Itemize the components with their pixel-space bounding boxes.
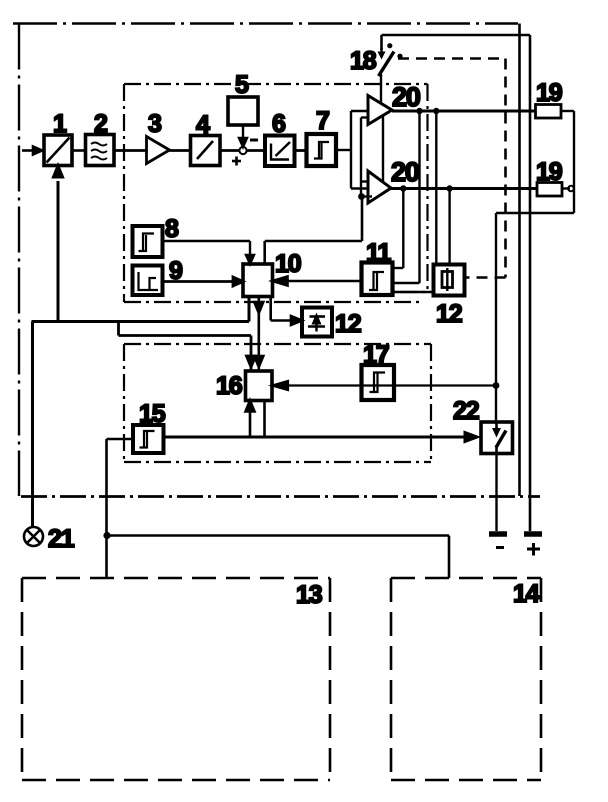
wire block 22 to minus terminal [495, 453, 497, 532]
resistor 19 lower [537, 183, 562, 197]
outer machine boundary frame (dash-dot) [13, 24, 540, 497]
wire 7 to amplifier input line [336, 149, 351, 151]
block 1 (resolver, square with diagonal) [44, 135, 72, 166]
svg-text:21: 21 [48, 525, 75, 553]
svg-text:12: 12 [436, 300, 462, 328]
junction node [433, 108, 439, 114]
pulse block 12 [302, 308, 332, 337]
input arrow into block 1 [22, 147, 42, 155]
feedback wire block 10 bottom-left, long line to lamp and block 1 [32, 166, 250, 526]
amplifier input bus line L1 [351, 111, 368, 189]
svg-text:5: 5 [235, 71, 249, 99]
resistor 19 upper [536, 105, 562, 119]
junction node [103, 532, 110, 539]
wire block 16 bottom-right to thick line [263, 401, 266, 438]
svg-text:6: 6 [272, 110, 285, 138]
block 8 (relay characteristic) [133, 226, 163, 257]
inner subsystem frame 3 (dash-dot) [124, 344, 431, 462]
block 22 (switch) [481, 422, 513, 454]
wire resistor19 lower to common node [562, 187, 570, 189]
branch wire to block 16 top-left input [119, 322, 256, 372]
block 6 (limiter characteristic) [265, 136, 295, 167]
block 4 (ramp limiter) [191, 136, 221, 166]
block 15 (relay characteristic) [133, 425, 164, 453]
svg-text:1: 1 [53, 110, 67, 138]
power link between amplifiers [382, 116, 384, 183]
wire junction to box 14 [107, 536, 449, 579]
wire block 16 bottom-left to thick line (up arrow) [246, 401, 255, 438]
wire 11 to 10 with left arrow [273, 277, 362, 286]
wire 3 to 4 [170, 149, 191, 152]
box 13 (dashed) [22, 578, 330, 780]
summing junction node [239, 147, 246, 154]
svg-text:11: 11 [366, 239, 391, 267]
wire 9 to 10 with arrow [162, 277, 243, 286]
wire 6 to 7 [295, 149, 307, 152]
svg-text:7: 7 [316, 107, 329, 135]
wire 8 to 10 with down arrow [162, 241, 254, 264]
amplifier 3 (triangle) [147, 137, 170, 164]
wire block 10 up and right to lower amplifier input [265, 197, 362, 265]
block 5 [228, 97, 258, 125]
box 14 (dashed) [391, 578, 541, 780]
svg-text:19: 19 [536, 79, 562, 107]
block 9 (step characteristic) [133, 266, 163, 296]
svg-text:3: 3 [148, 110, 161, 138]
junction node [446, 185, 452, 191]
dashed control link from switch 18 to phase block 12 [398, 59, 506, 278]
wire lower output to phase block 12 [448, 189, 450, 264]
svg-text:8: 8 [165, 215, 179, 243]
amplifier input bus line L2 [361, 118, 372, 197]
wire block2 to amplifier 3 [114, 149, 146, 152]
thick wire block 15 to block 22 with arrow [164, 433, 478, 442]
minus sign at summing junction [250, 139, 258, 142]
switch 18 [378, 43, 403, 104]
block 16 [246, 371, 273, 401]
svg-text:13: 13 [296, 581, 322, 609]
wire block 10 to pulse block 12 with arrow [271, 297, 302, 326]
wire block 10 bottom to block 16 (with two down arrows) [254, 297, 263, 372]
plus terminal bar [524, 531, 542, 537]
supply rail (solid) from switch to plus terminal [382, 35, 531, 531]
wire block 11 to phase block 12 (bottom link) [393, 291, 436, 294]
svg-text:2: 2 [94, 110, 107, 138]
minus sign [496, 546, 504, 549]
wire block 15 left down to box 13 [107, 439, 134, 578]
node circle at resistor join [568, 186, 574, 192]
svg-text:20: 20 [392, 82, 420, 112]
wire 4 to summing junction [220, 149, 239, 152]
junction node [400, 185, 406, 191]
svg-text:20: 20 [391, 157, 419, 187]
output line lower amplifier [391, 187, 537, 190]
wire resistor19 upper to common node [561, 111, 574, 213]
block 17 (relay characteristic) [362, 365, 395, 400]
plus sign [527, 543, 540, 556]
phase block 12 [434, 265, 465, 296]
return wire down to block 22 [496, 213, 574, 421]
svg-text:16: 16 [216, 372, 242, 400]
svg-text:15: 15 [139, 400, 166, 428]
servo amplifier 20 (lower triangle) [368, 171, 391, 203]
svg-text:14: 14 [513, 580, 540, 608]
block 7 (relay characteristic) [307, 134, 337, 166]
svg-text:18: 18 [350, 47, 377, 75]
wire from return line through block 17 into block 16 with left arrow [272, 381, 497, 390]
wire junction to block 6 [247, 149, 265, 152]
block 10 [243, 264, 273, 297]
wire block1 to block2 [72, 149, 86, 152]
junction node on return wire [493, 382, 500, 389]
inner subsystem frame 2 (dash-dot) [124, 84, 428, 302]
svg-text:10: 10 [275, 250, 301, 278]
wire upper output to phase block 12 [435, 111, 437, 263]
svg-text:17: 17 [363, 341, 389, 369]
svg-text:4: 4 [196, 111, 210, 139]
lamp 21 [24, 527, 43, 546]
servo amplifier 20 (upper triangle) [368, 96, 392, 125]
wire upper output to block 11 [393, 111, 420, 283]
wire lower output to block 11 [393, 189, 404, 269]
block 11 (relay characteristic) [362, 263, 393, 296]
output line upper amplifier [392, 110, 536, 113]
svg-text:12: 12 [335, 310, 361, 338]
block 2 (filter, wavy lines) [86, 135, 115, 166]
node at L2 bottom [358, 193, 365, 200]
plus sign at summing junction [232, 157, 241, 166]
svg-text:22: 22 [453, 397, 479, 425]
wire 5 down to summing junction with arrow [239, 125, 247, 147]
svg-text:19: 19 [536, 158, 562, 186]
minus terminal bar [489, 531, 507, 537]
junction node [416, 108, 422, 114]
